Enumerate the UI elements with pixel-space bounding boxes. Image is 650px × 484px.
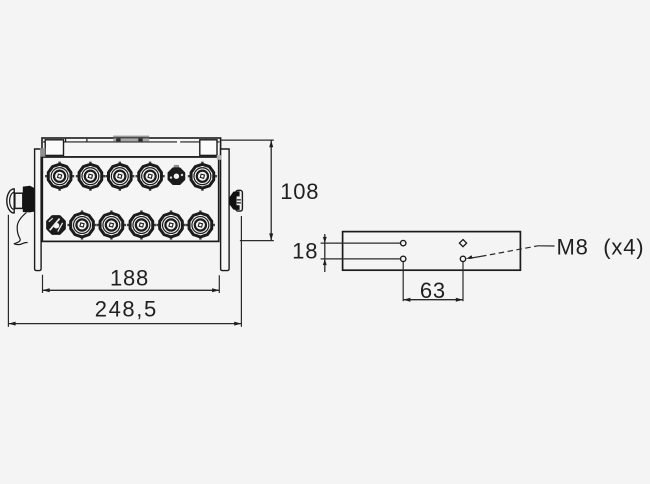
connector top row #1 (45, 162, 74, 191)
dim 248.5: extension lines (8, 215, 241, 327)
connector bottom row #1 (47, 216, 65, 234)
dim 108: dimension line (269, 140, 273, 241)
right latch black catch (229, 191, 239, 210)
leader line to M8 (466, 246, 555, 259)
dim 248.5: dimension line (8, 322, 241, 326)
hole top-right (diamond) (459, 240, 466, 247)
connector bottom row #6 (186, 210, 215, 239)
connector bottom row #3 (97, 210, 126, 239)
dim 63: extension lines (403, 262, 463, 301)
plan view: mounting plate outline (343, 232, 521, 271)
connector bottom row #2 (67, 210, 96, 239)
front body panel (42, 157, 218, 241)
connector top row #2 (76, 162, 105, 191)
connector bottom row #5 (156, 210, 185, 239)
dim 188: extension lines (43, 275, 220, 293)
right latch slot (237, 196, 242, 205)
right latch housing (236, 190, 243, 211)
dim 108: extension lines (221, 140, 274, 241)
svg-text:63: 63 (420, 278, 446, 303)
connector top row #4 (136, 162, 165, 191)
grey hinge block right (217, 155, 222, 160)
dim 63: dimension line (403, 298, 463, 302)
connector bottom row #4 (127, 210, 156, 239)
grey hinge block left (40, 148, 45, 156)
lid right end cap (200, 140, 217, 156)
lid centre grey latch tab (113, 136, 149, 142)
dim 18: dimension line (323, 234, 327, 272)
dim 188: dimension line (43, 288, 220, 292)
svg-text:18: 18 (292, 239, 318, 264)
svg-text:188: 188 (110, 265, 149, 290)
svg-text:248,5: 248,5 (95, 296, 158, 321)
connector top row #3 (105, 162, 134, 191)
left latch block (23, 186, 34, 213)
front view: lid strip (42, 138, 221, 157)
hole bottom-right (460, 256, 465, 261)
hole top-left (401, 240, 406, 245)
plan view: hole centre lines (321, 243, 401, 259)
lid hinge ticks (66, 139, 87, 142)
right flange bracket (221, 149, 230, 271)
svg-text:108: 108 (280, 179, 319, 204)
hole bottom-left (401, 256, 406, 261)
svg-text:(x4): (x4) (603, 234, 644, 259)
connector top row #6 (188, 162, 217, 191)
connector top row #5 (169, 165, 185, 184)
left rubber strap (14, 212, 27, 244)
label M8 (x4) (557, 234, 645, 259)
left flange bracket (35, 149, 42, 271)
lid left end cap (45, 140, 63, 156)
svg-text:M8: M8 (557, 234, 589, 259)
left latch knob (7, 189, 23, 213)
